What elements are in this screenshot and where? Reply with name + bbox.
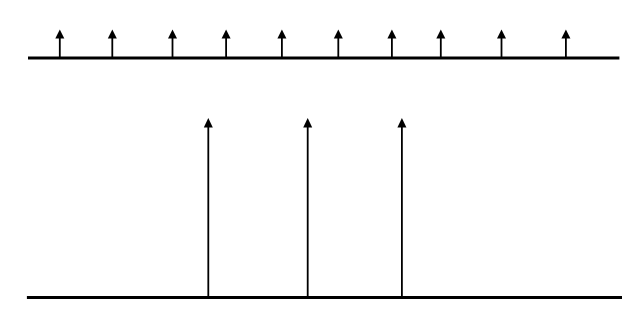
top arrow 8 [436, 30, 445, 58]
bottom line [27, 296, 622, 299]
top arrow 4 [222, 30, 231, 58]
top arrow 6 [334, 30, 343, 58]
top arrow 10 [561, 30, 570, 58]
tall arrow 1 [204, 118, 213, 297]
top arrow 2 [108, 30, 117, 58]
tall arrow 2 [303, 118, 312, 297]
top arrow 1 [55, 30, 64, 58]
top arrow 9 [497, 30, 506, 58]
tall arrow 3 [397, 118, 406, 297]
top arrow 3 [168, 30, 177, 58]
top arrow 5 [277, 30, 286, 58]
top arrow 7 [387, 30, 396, 58]
top line [28, 57, 619, 60]
